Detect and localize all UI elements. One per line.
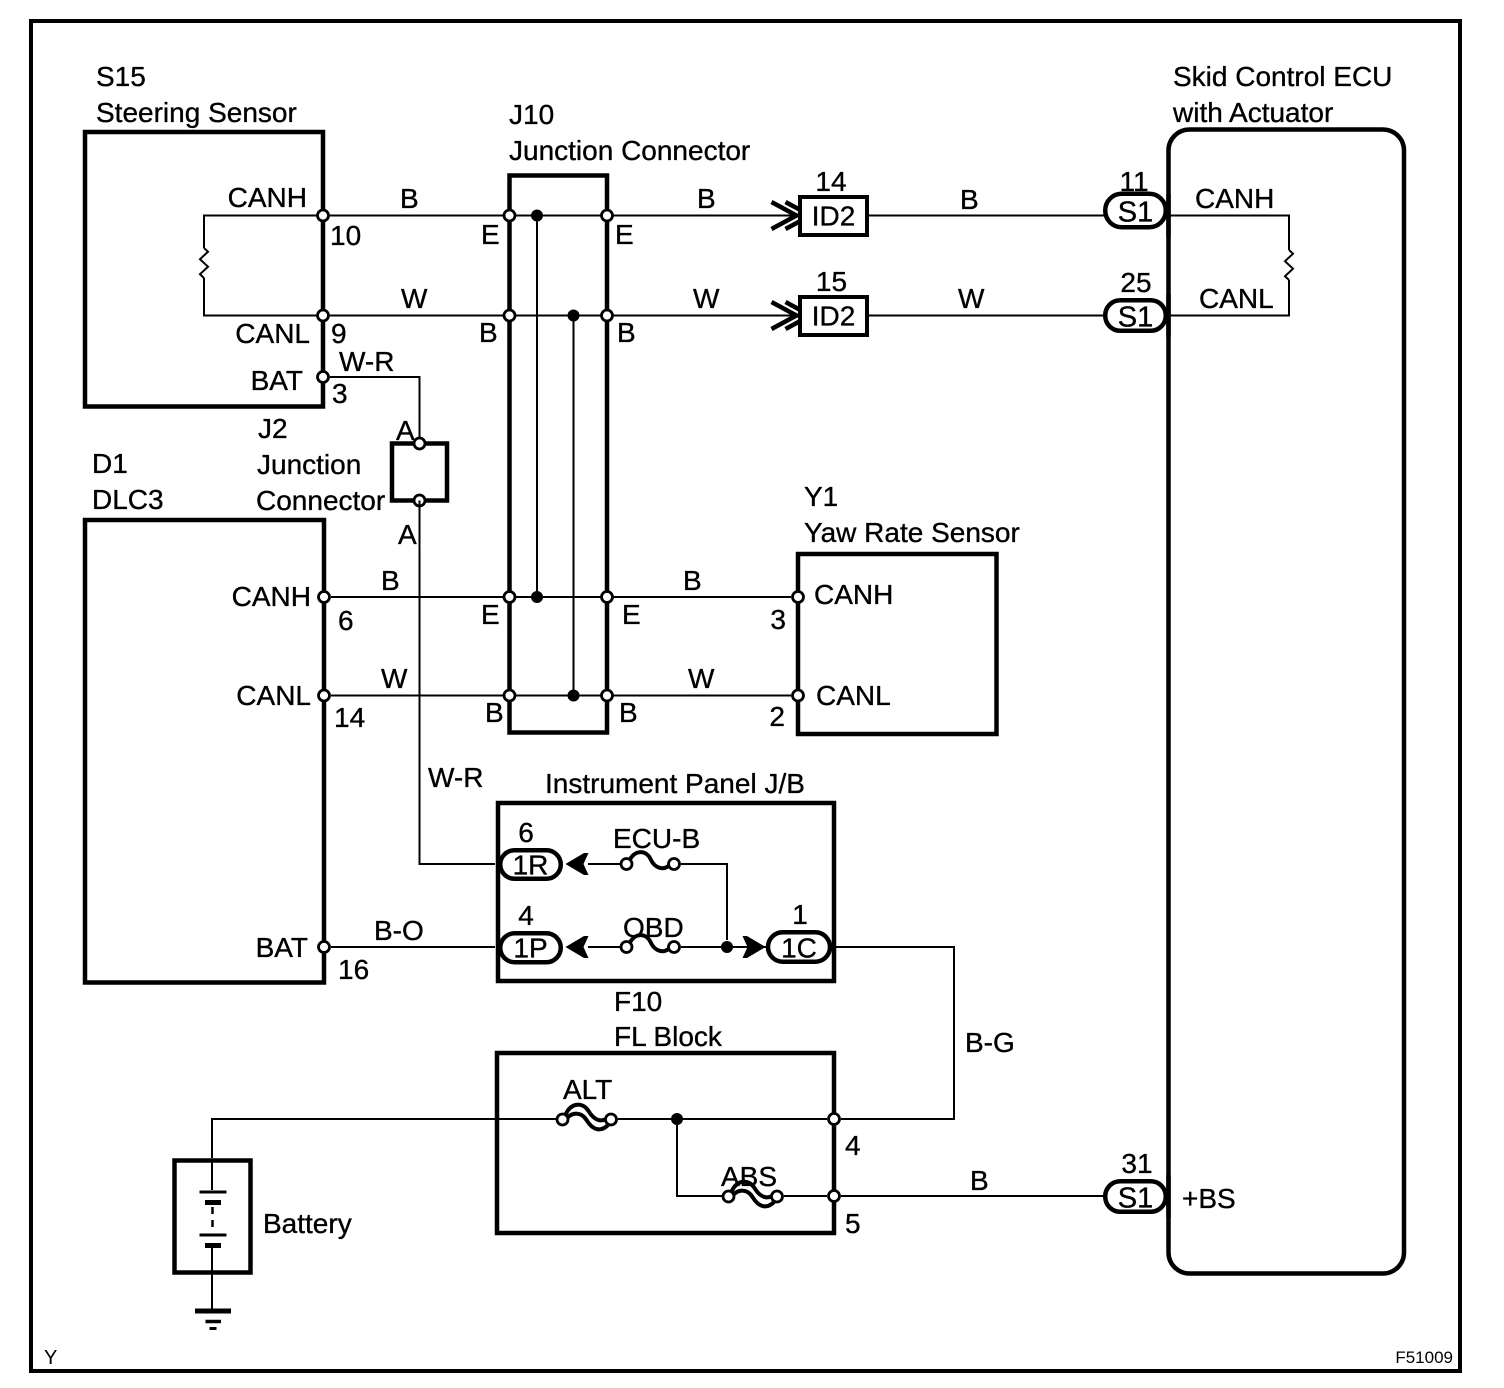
wire 1C to FL block pin 4 (B-G) [832, 947, 954, 1119]
resistor terminating (S15 internal) [200, 248, 208, 278]
svg-text:S1: S1 [1118, 302, 1153, 334]
svg-text:A: A [396, 415, 415, 446]
svg-text:CANH: CANH [814, 579, 893, 610]
svg-text:6: 6 [338, 605, 354, 636]
svg-text:16: 16 [338, 954, 369, 985]
svg-text:CANL: CANL [236, 680, 311, 711]
battery B1 [175, 1161, 251, 1273]
wire CANL J10 to ID2 [614, 315, 798, 317]
svg-text:ID2: ID2 [812, 201, 856, 232]
box Y1 Yaw Rate Sensor [798, 554, 997, 734]
svg-text:B: B [617, 317, 636, 348]
pin 16 DLC3 [319, 942, 330, 953]
junction dot OBD/ECU-B [721, 941, 733, 953]
wire J10 internal bus CANH (vertical) [536, 216, 538, 598]
svg-text:14: 14 [334, 702, 365, 733]
arrowhead at 1P [566, 936, 589, 958]
junction dot ALT/ABS [671, 1113, 683, 1125]
svg-text:1R: 1R [513, 850, 549, 881]
svg-text:W: W [693, 283, 720, 314]
pin B J10 bottom-left CANL [504, 690, 515, 701]
wire J10 internal bus CANL (vertical) [573, 316, 575, 696]
svg-text:3: 3 [332, 378, 348, 409]
junction dot CANH bottom [531, 591, 543, 603]
svg-text:A: A [398, 519, 417, 550]
wire J10 CANH pass-through (top) [510, 215, 608, 217]
pin 3 Y1 [793, 592, 804, 603]
wire S15 resistor to CANL [204, 278, 323, 316]
svg-text:W: W [958, 283, 985, 314]
wire ECU internal CANH to resistor [1168, 216, 1289, 251]
terminal S1 pin 31 [1105, 1181, 1166, 1212]
svg-text:Connector: Connector [256, 485, 385, 516]
pin B J10 CANL-left [504, 310, 515, 321]
connector box ID2 (15) [800, 297, 867, 335]
svg-text:Y: Y [44, 1347, 57, 1369]
battery plate short 1 [205, 1200, 221, 1205]
svg-text:CANL: CANL [1199, 283, 1274, 314]
svg-text:6: 6 [518, 817, 534, 848]
svg-text:25: 25 [1120, 267, 1151, 298]
pin E J10 top-right [602, 210, 613, 221]
wire CANH J10 to Y1 [614, 596, 792, 598]
wire J10 CANH pass-through (bottom) [510, 596, 608, 598]
box Skid Control ECU with Actuator [1169, 130, 1405, 1274]
svg-text:+BS: +BS [1182, 1183, 1236, 1214]
wire CANH S15 to J10 [330, 215, 505, 217]
box D1 DLC3 [85, 520, 324, 983]
svg-text:OBD: OBD [623, 912, 684, 943]
fusible link ABS [731, 1182, 777, 1198]
svg-text:Yaw Rate Sensor: Yaw Rate Sensor [804, 517, 1020, 548]
wire ECU resistor to CANL [1168, 280, 1289, 316]
svg-text:D1: D1 [92, 448, 128, 479]
terminal 1P (pin 4) [500, 933, 561, 962]
wire pin 5 to S1 pin 31 [841, 1195, 1110, 1197]
box S15 Steering Sensor [85, 132, 323, 407]
pin B J10 CANL-right [602, 310, 613, 321]
pin E J10 bottom-left [504, 592, 515, 603]
svg-text:ALT: ALT [563, 1074, 612, 1105]
wire ECU edge restroke at S1 11 [1166, 194, 1171, 237]
junction dot CANL top [568, 310, 580, 322]
pin E J10 bottom-right [602, 592, 613, 603]
svg-text:1P: 1P [513, 933, 547, 964]
svg-text:Skid Control ECU: Skid Control ECU [1173, 61, 1392, 92]
fuse ECU-B [629, 852, 671, 868]
svg-text:4: 4 [518, 900, 534, 931]
svg-text:CANL: CANL [816, 680, 891, 711]
fusible link ALT [565, 1105, 611, 1121]
svg-text:1: 1 [792, 899, 808, 930]
svg-text:F10: F10 [614, 986, 662, 1017]
box J2 Junction Connector [392, 444, 447, 501]
wire CANH ID2 to S1 [869, 215, 1110, 217]
svg-text:with Actuator: with Actuator [1172, 97, 1333, 128]
connector box ID2 (14) [800, 197, 867, 235]
wire J10 CANL pass-through (bottom) [510, 695, 608, 697]
wire junction down to ABS [677, 1119, 722, 1196]
svg-text:Battery: Battery [263, 1208, 352, 1239]
svg-text:W: W [381, 663, 408, 694]
pin 4 FL block [829, 1114, 840, 1125]
pin A J2 top [414, 438, 425, 449]
svg-text:Junction: Junction [257, 449, 361, 480]
wire S15 internal CANH to resistor [204, 216, 323, 249]
wire BAT S15 to J2 [330, 377, 420, 444]
svg-text:ID2: ID2 [812, 301, 856, 332]
svg-text:31: 31 [1121, 1148, 1152, 1179]
wire CANH DLC3 to J10 [331, 596, 505, 598]
wire J10 CANL pass-through (top) [510, 315, 608, 317]
svg-text:S1: S1 [1118, 1183, 1153, 1215]
svg-text:B: B [683, 565, 702, 596]
battery dashed center [211, 1207, 214, 1232]
terminal S1 pin 25 [1105, 300, 1166, 331]
svg-text:3: 3 [770, 604, 786, 635]
svg-text:B: B [381, 565, 400, 596]
svg-text:W-R: W-R [428, 762, 483, 793]
svg-text:15: 15 [816, 266, 847, 297]
wire W-R J2 down to 1R [420, 501, 496, 865]
box Instrument Panel J/B [498, 803, 834, 981]
terminal 1R (pin 6) [500, 850, 561, 879]
svg-text:ABS: ABS [721, 1161, 777, 1192]
wire battery to ALT [212, 1119, 556, 1158]
svg-text:CANL: CANL [235, 318, 310, 349]
svg-text:9: 9 [331, 318, 347, 349]
terminal S1 pin 11 [1105, 194, 1166, 228]
box J10 Junction Connector [510, 176, 608, 733]
svg-text:S15: S15 [96, 61, 146, 92]
wire OBD fuse to 1C [681, 946, 766, 948]
svg-text:E: E [615, 219, 634, 250]
wire ECU-B fuse to OBD junction [681, 864, 727, 940]
pin 2 Y1 [793, 690, 804, 701]
svg-text:B: B [970, 1165, 989, 1196]
svg-text:14: 14 [815, 166, 846, 197]
wire CANH J10 to ID2 [614, 215, 798, 217]
pin B J10 bottom-right CANL [602, 690, 613, 701]
svg-text:B: B [485, 697, 504, 728]
svg-text:F51009: F51009 [1395, 1348, 1453, 1367]
svg-text:FL Block: FL Block [614, 1021, 723, 1052]
svg-text:Y1: Y1 [804, 481, 838, 512]
junction dot CANL bottom [568, 690, 580, 702]
pin 6 DLC3 [319, 592, 330, 603]
chevron pair ID2 CANH [772, 202, 811, 229]
pin 3 S15 [318, 372, 329, 383]
svg-text:J10: J10 [509, 99, 554, 130]
terminal 1C (pin 1) [768, 932, 830, 962]
svg-text:5: 5 [845, 1208, 861, 1239]
svg-text:Steering Sensor: Steering Sensor [96, 97, 297, 128]
wire B-O DLC3 BAT to 1P [331, 946, 495, 948]
svg-text:CANH: CANH [1195, 183, 1274, 214]
battery plate long 2 [200, 1234, 227, 1237]
pin 14 DLC3 [319, 690, 330, 701]
svg-text:B: B [960, 184, 979, 215]
arrowhead at 1R [566, 853, 589, 875]
svg-text:DLC3: DLC3 [92, 484, 164, 515]
svg-text:B: B [479, 317, 498, 348]
svg-text:CANH: CANH [228, 182, 307, 213]
arrowhead at 1C [743, 936, 766, 958]
svg-text:J2: J2 [258, 413, 288, 444]
svg-text:B: B [619, 697, 638, 728]
box FL Block [497, 1053, 834, 1233]
svg-text:W-R: W-R [339, 346, 394, 377]
svg-text:Instrument Panel J/B: Instrument Panel J/B [545, 768, 805, 799]
svg-text:2: 2 [769, 701, 785, 732]
svg-text:W: W [688, 663, 715, 694]
svg-text:10: 10 [330, 220, 361, 251]
svg-text:B: B [400, 183, 419, 214]
pin 10 S15 [318, 210, 329, 221]
svg-text:CANH: CANH [232, 581, 311, 612]
wire ABS to pin 5 [784, 1195, 827, 1197]
svg-text:BAT: BAT [256, 932, 308, 963]
svg-text:1C: 1C [781, 933, 817, 964]
battery plate long 1 [200, 1191, 227, 1194]
svg-text:B: B [697, 183, 716, 214]
resistor terminating (ECU internal) [1285, 250, 1293, 280]
svg-text:B-O: B-O [374, 915, 424, 946]
wire CANL DLC3 to J10 [331, 695, 505, 697]
pin A J2 bottom [414, 495, 425, 506]
wire arrowhead to ECU-B fuse [588, 863, 620, 865]
svg-text:Junction Connector: Junction Connector [509, 135, 750, 166]
battery plate short 2 [205, 1243, 221, 1248]
svg-text:E: E [481, 599, 500, 630]
wire ECU edge restroke at S1 25 [1166, 294, 1171, 337]
battery internal top lead [211, 1160, 213, 1190]
svg-text:BAT: BAT [251, 365, 303, 396]
junction dot CANH top [531, 210, 543, 222]
svg-text:S1: S1 [1118, 197, 1153, 229]
battery internal bottom lead [211, 1248, 213, 1311]
wire CANL S15 to J10 [330, 315, 505, 317]
pin 5 FL block [829, 1191, 840, 1202]
pin E J10 top-left [504, 210, 515, 221]
svg-text:E: E [622, 599, 641, 630]
ground symbol [195, 1309, 231, 1314]
wire ALT to pin 4 [618, 1118, 827, 1120]
svg-text:ECU-B: ECU-B [613, 823, 700, 854]
wire CANL J10 to Y1 [614, 695, 792, 697]
chevron pair ID2 CANL [772, 302, 811, 329]
svg-text:W: W [401, 283, 428, 314]
svg-text:4: 4 [845, 1130, 861, 1161]
svg-text:B-G: B-G [965, 1027, 1015, 1058]
wire CANL ID2 to S1 [869, 315, 1110, 317]
svg-text:11: 11 [1119, 166, 1148, 197]
wire ECU edge restroke at S1 31 [1166, 1175, 1171, 1218]
wire arrowhead to OBD fuse [588, 946, 620, 948]
pin 9 S15 [318, 310, 329, 321]
fuse OBD [629, 935, 671, 951]
svg-text:E: E [481, 219, 500, 250]
